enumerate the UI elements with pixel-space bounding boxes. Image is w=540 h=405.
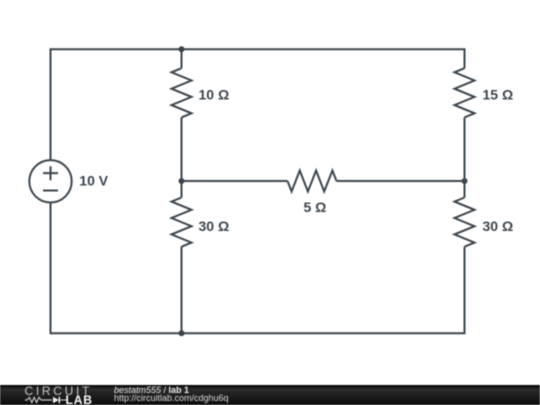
svg-text:5 Ω: 5 Ω xyxy=(304,199,327,215)
wire 5ohm left lead xyxy=(182,180,288,182)
node junction middle xyxy=(179,178,185,184)
svg-text:10 V: 10 V xyxy=(79,173,108,189)
footer text xyxy=(114,385,229,402)
resistor 30 Ω right xyxy=(455,198,475,247)
wire left lower + bottom + right bottom lead xyxy=(51,203,465,334)
wire middle branch bottom lead xyxy=(181,247,183,334)
resistor 5 Ω xyxy=(288,171,337,192)
CircuitLab logo xyxy=(0,385,110,405)
node junction bottom middle xyxy=(179,330,185,336)
node junction top middle xyxy=(179,46,185,52)
svg-text:LAB: LAB xyxy=(66,393,93,405)
wire left upper + top + right top lead xyxy=(51,49,465,160)
node junction right middle xyxy=(462,178,468,184)
voltage source V 10 V xyxy=(29,160,71,202)
wire right branch mid xyxy=(464,117,466,197)
wire middle branch mid xyxy=(181,117,183,197)
resistor 10 Ω xyxy=(172,68,192,117)
resistor 15 Ω xyxy=(455,68,475,117)
svg-text:30 Ω: 30 Ω xyxy=(199,218,230,234)
wire 5ohm right lead xyxy=(337,180,465,182)
wire middle branch top lead xyxy=(181,49,183,68)
svg-text:30 Ω: 30 Ω xyxy=(483,218,514,234)
resistor 30 Ω middle xyxy=(172,198,192,247)
svg-text:10 Ω: 10 Ω xyxy=(199,87,230,103)
footer bar xyxy=(0,385,540,405)
svg-text:15 Ω: 15 Ω xyxy=(483,87,514,103)
